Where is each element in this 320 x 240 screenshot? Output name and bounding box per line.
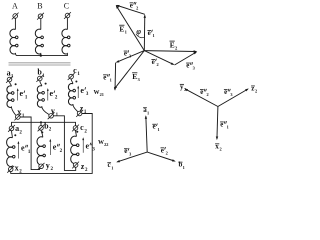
core separator (gray double line) xyxy=(9,62,71,64)
svg-text:3: 3 xyxy=(230,92,232,97)
vector E2 xyxy=(144,50,196,53)
label e2pp top diagram xyxy=(130,1,139,10)
primary coil C xyxy=(62,29,70,54)
label y2 xyxy=(46,161,54,172)
label x1 xyxy=(17,108,25,119)
label c1 xyxy=(73,66,80,77)
wire z1 to x2 xyxy=(11,114,93,174)
label e1 doubleprime xyxy=(21,144,31,155)
wire c1 to coil xyxy=(71,79,73,84)
wire B coil to bus xyxy=(40,53,42,56)
svg-text:1: 1 xyxy=(153,33,155,38)
label e3 doubleprime xyxy=(86,141,96,152)
polarity dot b2 xyxy=(41,131,43,133)
angle phi arc xyxy=(136,34,144,38)
terminal x1 xyxy=(14,114,21,121)
svg-text:1: 1 xyxy=(111,165,113,170)
terminal c2 xyxy=(72,125,79,132)
svg-text:e: e xyxy=(220,121,223,128)
wire x1 to y2 xyxy=(20,117,40,170)
svg-text:21: 21 xyxy=(100,92,104,97)
label b1 xyxy=(37,68,45,79)
svg-text:e: e xyxy=(20,89,24,98)
label e3p bottom diagram xyxy=(124,147,132,156)
svg-text:A: A xyxy=(12,2,18,11)
terminal x2 xyxy=(7,166,14,173)
wire coil c1 to z1 xyxy=(73,104,78,112)
label e2p bottom diagram xyxy=(161,146,168,155)
svg-text:C: C xyxy=(64,2,69,11)
emf arrow e2pp xyxy=(49,140,51,155)
wire a2 to coil xyxy=(11,131,14,138)
vector E3 xyxy=(115,51,145,89)
label c1 vector xyxy=(107,161,113,170)
label a1 vector xyxy=(143,106,149,115)
secondary coil a2 xyxy=(7,137,15,166)
svg-text:E: E xyxy=(132,72,137,81)
svg-text:W: W xyxy=(98,140,104,146)
wire coil c2 to z2 xyxy=(75,162,78,164)
svg-text:2: 2 xyxy=(206,92,208,97)
wire coil a1 to x1 xyxy=(11,106,15,115)
vector b1 (down-right) xyxy=(147,152,174,161)
svg-text:E: E xyxy=(119,24,124,33)
wire a1 to coil xyxy=(10,82,12,86)
vector e3 prime xyxy=(117,51,145,63)
label e3 prime xyxy=(80,86,88,97)
svg-text:x: x xyxy=(15,164,19,173)
svg-text:2: 2 xyxy=(219,147,221,152)
terminal b1 xyxy=(36,75,43,82)
terminal a1 xyxy=(6,76,13,83)
label E1 xyxy=(119,24,127,34)
wire C terminal to coil xyxy=(66,18,68,30)
terminal C xyxy=(64,12,71,19)
terminal z1 xyxy=(76,110,83,117)
label x2 vector xyxy=(215,142,222,151)
svg-text:1: 1 xyxy=(157,127,159,132)
label e1p top diagram xyxy=(147,29,154,38)
wire A terminal to coil xyxy=(14,18,16,29)
svg-text:e: e xyxy=(53,143,57,152)
terminal a2 xyxy=(8,125,15,132)
wire coil b1 to y1 xyxy=(42,106,49,114)
svg-text:22: 22 xyxy=(104,142,108,147)
primary coil B xyxy=(35,29,43,54)
vector e1 doubleprime xyxy=(114,63,117,90)
junction primary neutral xyxy=(40,54,42,56)
svg-text:2: 2 xyxy=(157,62,159,67)
label a2 xyxy=(15,124,22,135)
secondary coil b2 xyxy=(37,137,45,165)
wire c2 to coil xyxy=(75,130,78,136)
emf arrow e1pp xyxy=(17,142,19,159)
secondary coil a1 xyxy=(7,86,14,108)
label e1pp bottom diagram xyxy=(220,121,229,129)
vector E1 xyxy=(116,6,144,51)
label e3pp bottom diagram xyxy=(224,89,233,97)
phase label C xyxy=(64,2,69,11)
svg-text:e: e xyxy=(200,89,203,96)
terminal b2 xyxy=(38,125,45,132)
terminal B xyxy=(37,13,44,20)
label a1 xyxy=(7,68,14,79)
label e2 prime xyxy=(50,89,58,100)
wire b1 to coil xyxy=(40,81,42,86)
svg-text:W: W xyxy=(94,90,100,96)
emf arrow e3p xyxy=(77,87,79,98)
wire b2 to coil xyxy=(41,130,43,137)
junction neutral at b2 xyxy=(40,121,42,123)
svg-text:2: 2 xyxy=(136,6,138,11)
phase label A xyxy=(12,2,18,11)
label b1 vector xyxy=(178,161,185,170)
svg-text:1: 1 xyxy=(227,125,229,130)
terminal z2 xyxy=(72,162,79,169)
polarity dot a2 xyxy=(14,134,16,136)
wire coil a2 to x2 xyxy=(11,165,13,167)
vector c1 (down-left) xyxy=(117,152,147,162)
wire y1 to z2 xyxy=(53,116,75,171)
vector x2 (down) xyxy=(216,107,219,139)
svg-text:y: y xyxy=(46,161,50,170)
svg-text:2: 2 xyxy=(255,89,257,94)
label e3p top diagram xyxy=(124,50,132,59)
polarity dot c2 xyxy=(76,131,78,133)
label e3pp top diagram xyxy=(186,62,196,71)
phase label B xyxy=(37,2,42,11)
label e1p bottom diagram xyxy=(152,123,159,132)
label z2 vector xyxy=(251,84,257,93)
svg-text:e: e xyxy=(21,144,25,153)
emf arrow e1p xyxy=(17,89,19,100)
svg-text:1: 1 xyxy=(110,78,112,83)
svg-text:1: 1 xyxy=(183,165,185,170)
svg-text:e: e xyxy=(80,86,84,95)
label e2pp bottom diagram xyxy=(200,89,209,97)
terminal y1 xyxy=(48,112,55,119)
svg-text:1: 1 xyxy=(147,110,149,115)
label W22 xyxy=(98,140,108,147)
terminal c1 xyxy=(68,73,75,80)
vector e1 prime (up) xyxy=(143,16,145,51)
label x2 xyxy=(15,164,23,175)
label e1pp top diagram xyxy=(103,73,112,82)
label c2 xyxy=(80,123,87,134)
terminal A xyxy=(12,13,19,20)
svg-text:e: e xyxy=(50,89,54,98)
label b2 xyxy=(44,121,52,132)
svg-text:e: e xyxy=(86,141,90,150)
emf arrow e3pp xyxy=(82,138,84,153)
svg-text:E: E xyxy=(170,40,175,49)
svg-text:B: B xyxy=(37,2,42,11)
label e1 prime xyxy=(20,89,28,100)
secondary coil c2 xyxy=(71,136,79,163)
svg-text:2: 2 xyxy=(166,151,168,156)
wire coil b2 to y2 xyxy=(42,163,43,166)
polarity dot b1 xyxy=(45,83,47,85)
label e2p top diagram xyxy=(151,58,158,67)
label y2 vector xyxy=(180,83,187,92)
polarity dot c1 xyxy=(75,81,77,83)
vector e2 doubleprime xyxy=(117,5,145,14)
secondary coil b1 xyxy=(37,86,44,108)
label E3 xyxy=(132,72,140,82)
vector e3 doubleprime xyxy=(175,52,197,65)
label z2 xyxy=(81,162,88,173)
primary coil A xyxy=(10,29,18,54)
polarity dot a1 xyxy=(15,83,17,85)
terminal y2 xyxy=(38,163,45,170)
svg-text:2: 2 xyxy=(184,87,186,92)
svg-text:φ: φ xyxy=(136,27,141,36)
primary star bus wire xyxy=(15,53,67,56)
emf arrow e2p xyxy=(47,89,49,100)
vector z2 (up-right) xyxy=(218,89,248,106)
label e2 doubleprime xyxy=(53,143,63,154)
label W21 xyxy=(94,90,104,97)
wire neutral to b2 xyxy=(40,122,42,125)
svg-text:e: e xyxy=(224,89,227,96)
wire B terminal to coil xyxy=(40,19,42,30)
vector e2 prime xyxy=(144,51,173,65)
vector y2 (up-left) xyxy=(185,89,218,106)
label z1 xyxy=(80,104,87,115)
vector a1 (up) xyxy=(146,116,147,152)
label y1 xyxy=(51,107,59,118)
secondary coil c1 xyxy=(68,84,75,106)
neutral bus a2-b2-c2 xyxy=(12,122,76,126)
label E2 xyxy=(170,40,178,50)
